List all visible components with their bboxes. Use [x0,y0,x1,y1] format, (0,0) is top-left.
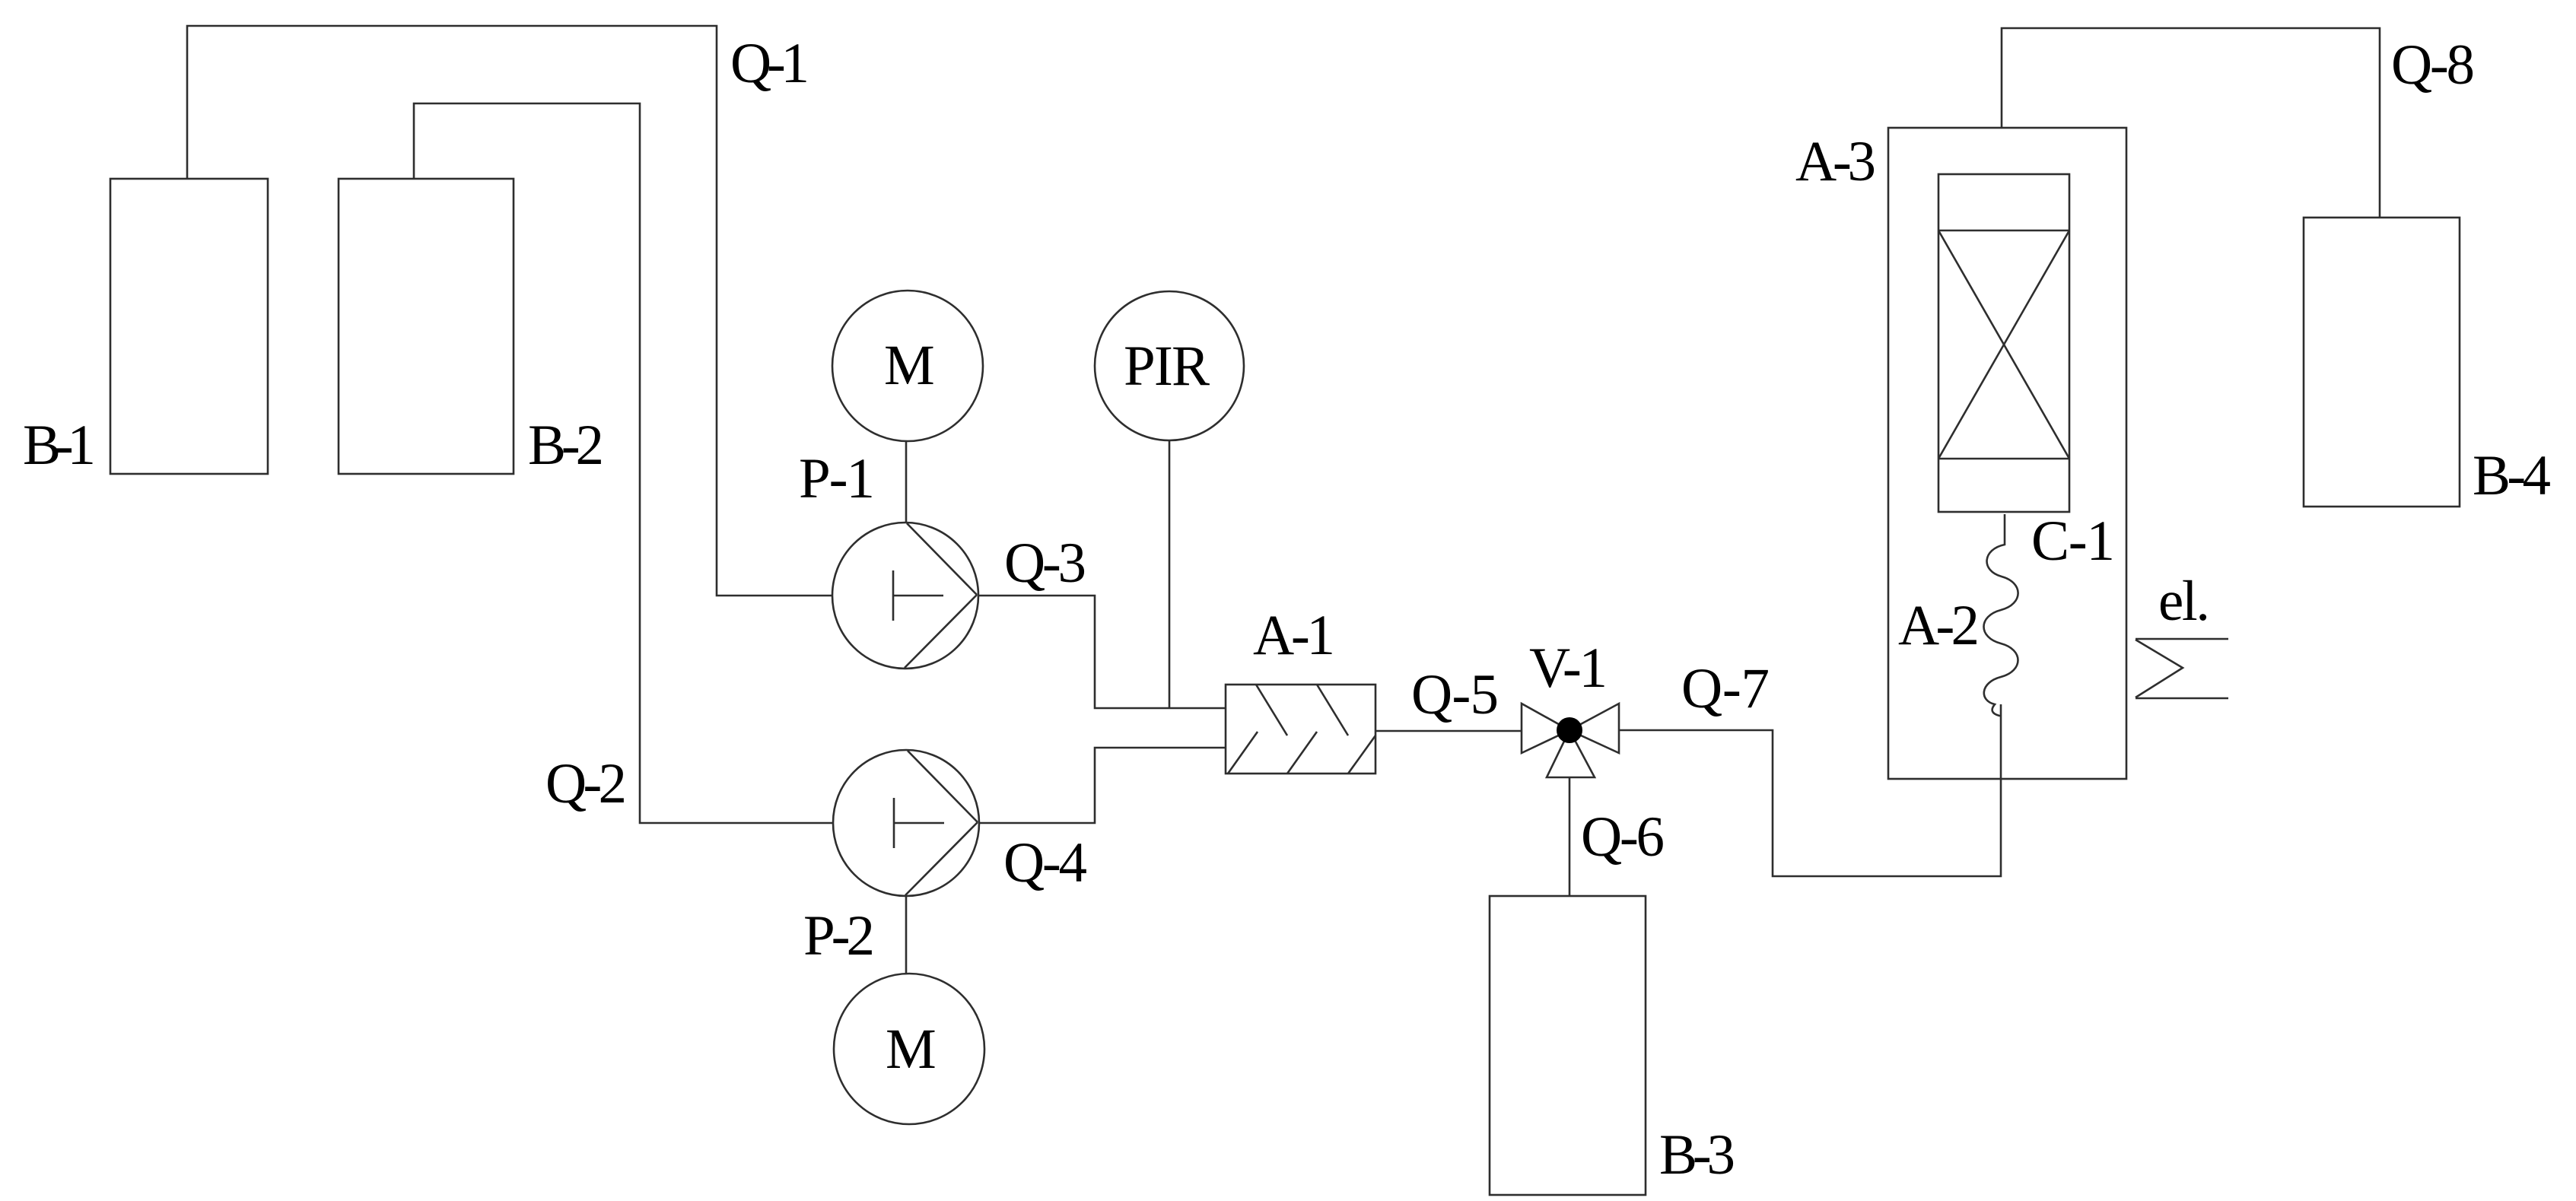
svg-text:el.: el. [2158,570,2210,633]
svg-text:Q-1: Q-1 [730,32,809,95]
svg-text:B-2: B-2 [528,414,604,477]
wire Q-4 [979,748,1226,823]
tank B-2 [339,179,514,474]
svg-text:P-2: P-2 [803,904,875,967]
wire motor M to pump P-1 [905,441,908,523]
svg-text:B-4: B-4 [2473,444,2551,507]
svg-text:Q-2: Q-2 [545,752,627,815]
svg-text:A-2: A-2 [1898,594,1980,657]
pump P-1 [832,523,978,669]
motor M of pump P-1 [832,291,983,441]
wire Q-2 [414,103,833,823]
svg-text:M: M [884,334,935,397]
svg-text:A-3: A-3 [1795,130,1876,193]
wire Q-6 [1569,777,1571,896]
svg-text:B-3: B-3 [1659,1123,1735,1187]
motor M of pump P-2 [834,974,984,1124]
wire Q-1 [187,26,832,596]
sensor PIR [1095,291,1244,440]
svg-text:Q-4: Q-4 [1003,831,1087,894]
tank B-1 [110,179,268,474]
valve V-1 [1522,704,1619,777]
svg-text:V-1: V-1 [1529,637,1608,700]
svg-text:Q-6: Q-6 [1581,805,1665,869]
svg-text:B-1: B-1 [23,414,96,477]
wire PIR to line [1169,440,1171,708]
pump P-2 [833,750,979,896]
svg-text:Q-3: Q-3 [1004,532,1086,595]
svg-text:A-1: A-1 [1253,604,1335,667]
wire pump P-2 to motor M [905,896,908,974]
column C-1 [1938,174,2069,512]
wire Q-5 [1375,730,1522,732]
svg-text:M: M [886,1018,937,1081]
electric heater el. [2136,639,2228,698]
wire Q-7 [1619,704,2001,876]
coil A-2 [1984,514,2018,716]
svg-text:Q-5: Q-5 [1411,663,1499,726]
filter A-1 [1226,685,1375,774]
svg-text:Q-7: Q-7 [1681,657,1770,720]
svg-text:P-1: P-1 [799,447,875,510]
wire Q-8 [2002,28,2380,218]
svg-text:PIR: PIR [1124,335,1210,398]
vessel A-3 [1888,128,2126,779]
tank B-3 [1490,896,1646,1195]
svg-text:C-1: C-1 [2031,510,2115,573]
tank B-4 [2304,218,2460,507]
wire Q-3 [978,596,1226,708]
svg-text:Q-8: Q-8 [2391,33,2475,97]
